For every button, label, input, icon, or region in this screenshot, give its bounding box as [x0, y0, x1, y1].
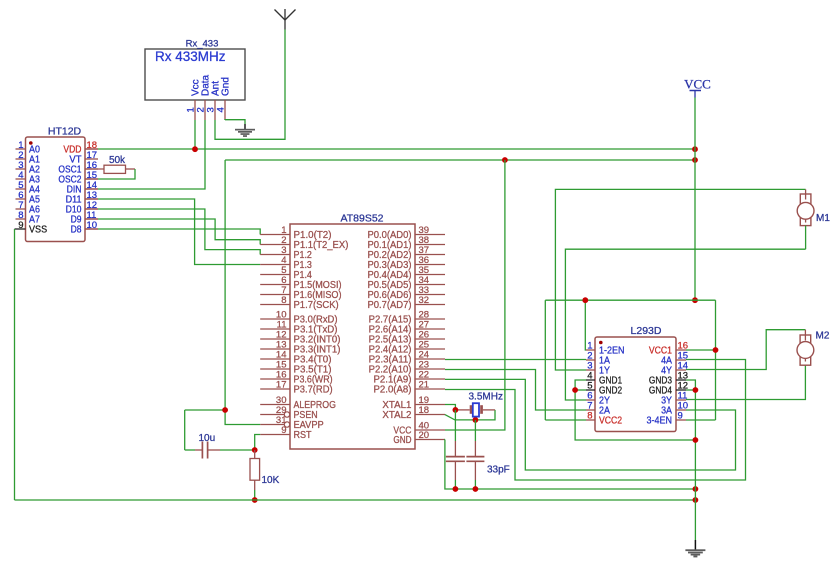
capacitor C2 33pF [446, 410, 465, 489]
L293D pin1 marker dot [599, 341, 603, 345]
svg-text:3-4EN: 3-4EN [647, 416, 673, 427]
crystal X1 3.5MHz [470, 403, 483, 416]
wire GND3 GND4 ground vertical to ground symbol [686, 380, 695, 540]
wire D10 to AT89S52 P1.2 [85, 209, 260, 255]
wire P2.0 to 4A [445, 360, 746, 481]
AT89S52 PSEN bubble pin29 [284, 412, 289, 417]
wire D9 to AT89S52 P1.1 [85, 219, 260, 245]
wire Rx Vcc pin down to VDD net [194, 120, 196, 149]
svg-text:8: 8 [281, 295, 286, 306]
wire 3Y to M2 bottom [686, 365, 805, 400]
svg-text:D8: D8 [71, 225, 82, 236]
HT12D left pin stubs 1-9 [15, 149, 26, 229]
svg-text:20: 20 [419, 430, 430, 441]
svg-text:M2: M2 [816, 331, 830, 342]
wire D11 to AT89S52 P1.3 [85, 199, 260, 265]
wire D8 to AT89S52 P1.0 [85, 229, 260, 235]
wire antenna to Rx ANT pin [215, 30, 285, 140]
svg-text:L293D: L293D [631, 325, 662, 337]
decoder U1 HT12D box [26, 137, 86, 242]
capacitor C3 33pF [466, 420, 484, 489]
junction C3 bottom [473, 486, 479, 492]
antenna AE1 [275, 9, 296, 30]
junction ground line at ground vertical [693, 486, 699, 492]
svg-text:AT89S52: AT89S52 [341, 213, 384, 225]
svg-text:VSS: VSS [29, 225, 48, 236]
L293D right pin stubs [676, 350, 686, 420]
HT12D pin1 marker dot [29, 141, 33, 145]
svg-text:VCC2: VCC2 [599, 416, 622, 427]
AT89S52 right pin stubs [415, 235, 445, 440]
wire OSC2 loop [85, 169, 135, 179]
svg-text:Rx 433MHz: Rx 433MHz [155, 49, 226, 64]
junction GND line below L293D [693, 437, 699, 443]
wire VCC pin40 up to VCC branch [445, 160, 505, 430]
wire GND pin20 to ground line [445, 440, 696, 490]
svg-text:M1: M1 [816, 213, 830, 224]
wire 1Y to M1 top [555, 189, 805, 370]
junction C2 bottom [453, 486, 459, 492]
wire ground rail bottom [15, 499, 696, 501]
svg-text:33pF: 33pF [487, 465, 510, 476]
Rx pin stubs 1-4 [195, 100, 225, 120]
junction GND2 [572, 387, 578, 393]
junction XTAL2/crystal/C3 [473, 417, 479, 423]
svg-text:P0.7(AD7): P0.7(AD7) [368, 300, 412, 311]
wire VCC distribution to L293D 1-2EN VCC1 VCC2 3-4EN [545, 300, 715, 420]
svg-text:Rx_433: Rx_433 [186, 39, 219, 50]
svg-text:VCC: VCC [684, 77, 711, 92]
AT89S52 left pin stubs [260, 235, 290, 435]
L293D left pin stubs [586, 350, 595, 420]
junction RST/C1/R2 [252, 447, 258, 453]
junction VDD/VCC vertical [692, 146, 698, 152]
motor M1 [797, 189, 814, 249]
svg-text:HT12D: HT12D [48, 126, 82, 138]
junction XTAL1/crystal/C2 [453, 407, 459, 413]
svg-text:32: 32 [419, 295, 430, 306]
svg-text:17: 17 [276, 380, 287, 391]
svg-text:Gnd: Gnd [221, 77, 232, 96]
wire VSS to ground rail [14, 229, 16, 500]
svg-text:RST: RST [294, 430, 312, 441]
wire P2.2 to 2A [445, 370, 586, 411]
ground symbol near Rx [235, 124, 255, 137]
AT89S52 EAVPP bubble pin31 [284, 422, 289, 427]
svg-text:8: 8 [587, 411, 592, 422]
svg-text:P1.7(SCK): P1.7(SCK) [294, 300, 339, 311]
capacitor C1 10u [185, 442, 255, 459]
junction VCC vertical at y300 line [692, 297, 698, 303]
motor driver U3 L293D box [595, 337, 676, 432]
svg-text:P3.7(RD): P3.7(RD) [294, 385, 333, 396]
svg-text:10K: 10K [262, 475, 280, 486]
ground symbol bottom right [685, 540, 705, 557]
wire VCC vertical [694, 98, 696, 301]
RF receiver module RX1 box [145, 49, 245, 100]
svg-text:9: 9 [678, 411, 683, 422]
wire P2.3 to 1A [445, 359, 586, 361]
svg-text:XTAL2: XTAL2 [382, 410, 411, 421]
wire VDD net HT12D pin18 to VCC rail [85, 148, 695, 150]
junction 1-2EN branch [582, 297, 588, 303]
svg-text:3.5MHz: 3.5MHz [469, 392, 503, 403]
junction EA net at cap branch [222, 407, 228, 413]
junction EA net at VCC vertical [692, 157, 698, 163]
svg-text:10u: 10u [199, 433, 216, 444]
wire 2Y to M1 bottom [565, 249, 805, 400]
junction GND4 [693, 387, 699, 393]
power symbol VCC [684, 77, 711, 98]
junction R2 bottom on ground rail [252, 497, 258, 503]
wire 4Y to M2 top [686, 330, 805, 370]
svg-text:9: 9 [18, 220, 23, 231]
svg-text:9: 9 [281, 425, 286, 436]
HT12D right pin stubs 18-10 [85, 149, 98, 229]
svg-text:50k: 50k [109, 155, 126, 166]
motor M2 [797, 330, 814, 365]
resistor R1 50k [85, 165, 135, 173]
resistor R2 10K [250, 450, 260, 500]
svg-text:P2.0(A8): P2.0(A8) [374, 385, 412, 396]
wire XTAL2 to crystal [445, 410, 495, 420]
svg-text:GND: GND [393, 435, 411, 446]
wire P2.1 to 3A [445, 379, 736, 470]
wire GND1 GND2 to ground vertical [575, 380, 695, 440]
junction ground rail at ground vertical [693, 497, 699, 503]
junction VDD/RxVcc [192, 146, 198, 152]
wire Rx Data pin to HT12D DIN [85, 120, 205, 189]
wire XTAL1 to crystal [445, 405, 470, 410]
wire RST to cap/resistor junction [255, 435, 261, 451]
wire VCC to EAVPP and 10u cap net [185, 160, 695, 450]
junction VCC pin40 branch [502, 157, 508, 163]
microcontroller U2 AT89S52 box [290, 224, 415, 449]
svg-text:18: 18 [419, 405, 430, 416]
junction VCC1 branch [713, 347, 719, 353]
wire Rx Gnd pin to ground [225, 120, 245, 124]
svg-text:21: 21 [419, 380, 430, 391]
